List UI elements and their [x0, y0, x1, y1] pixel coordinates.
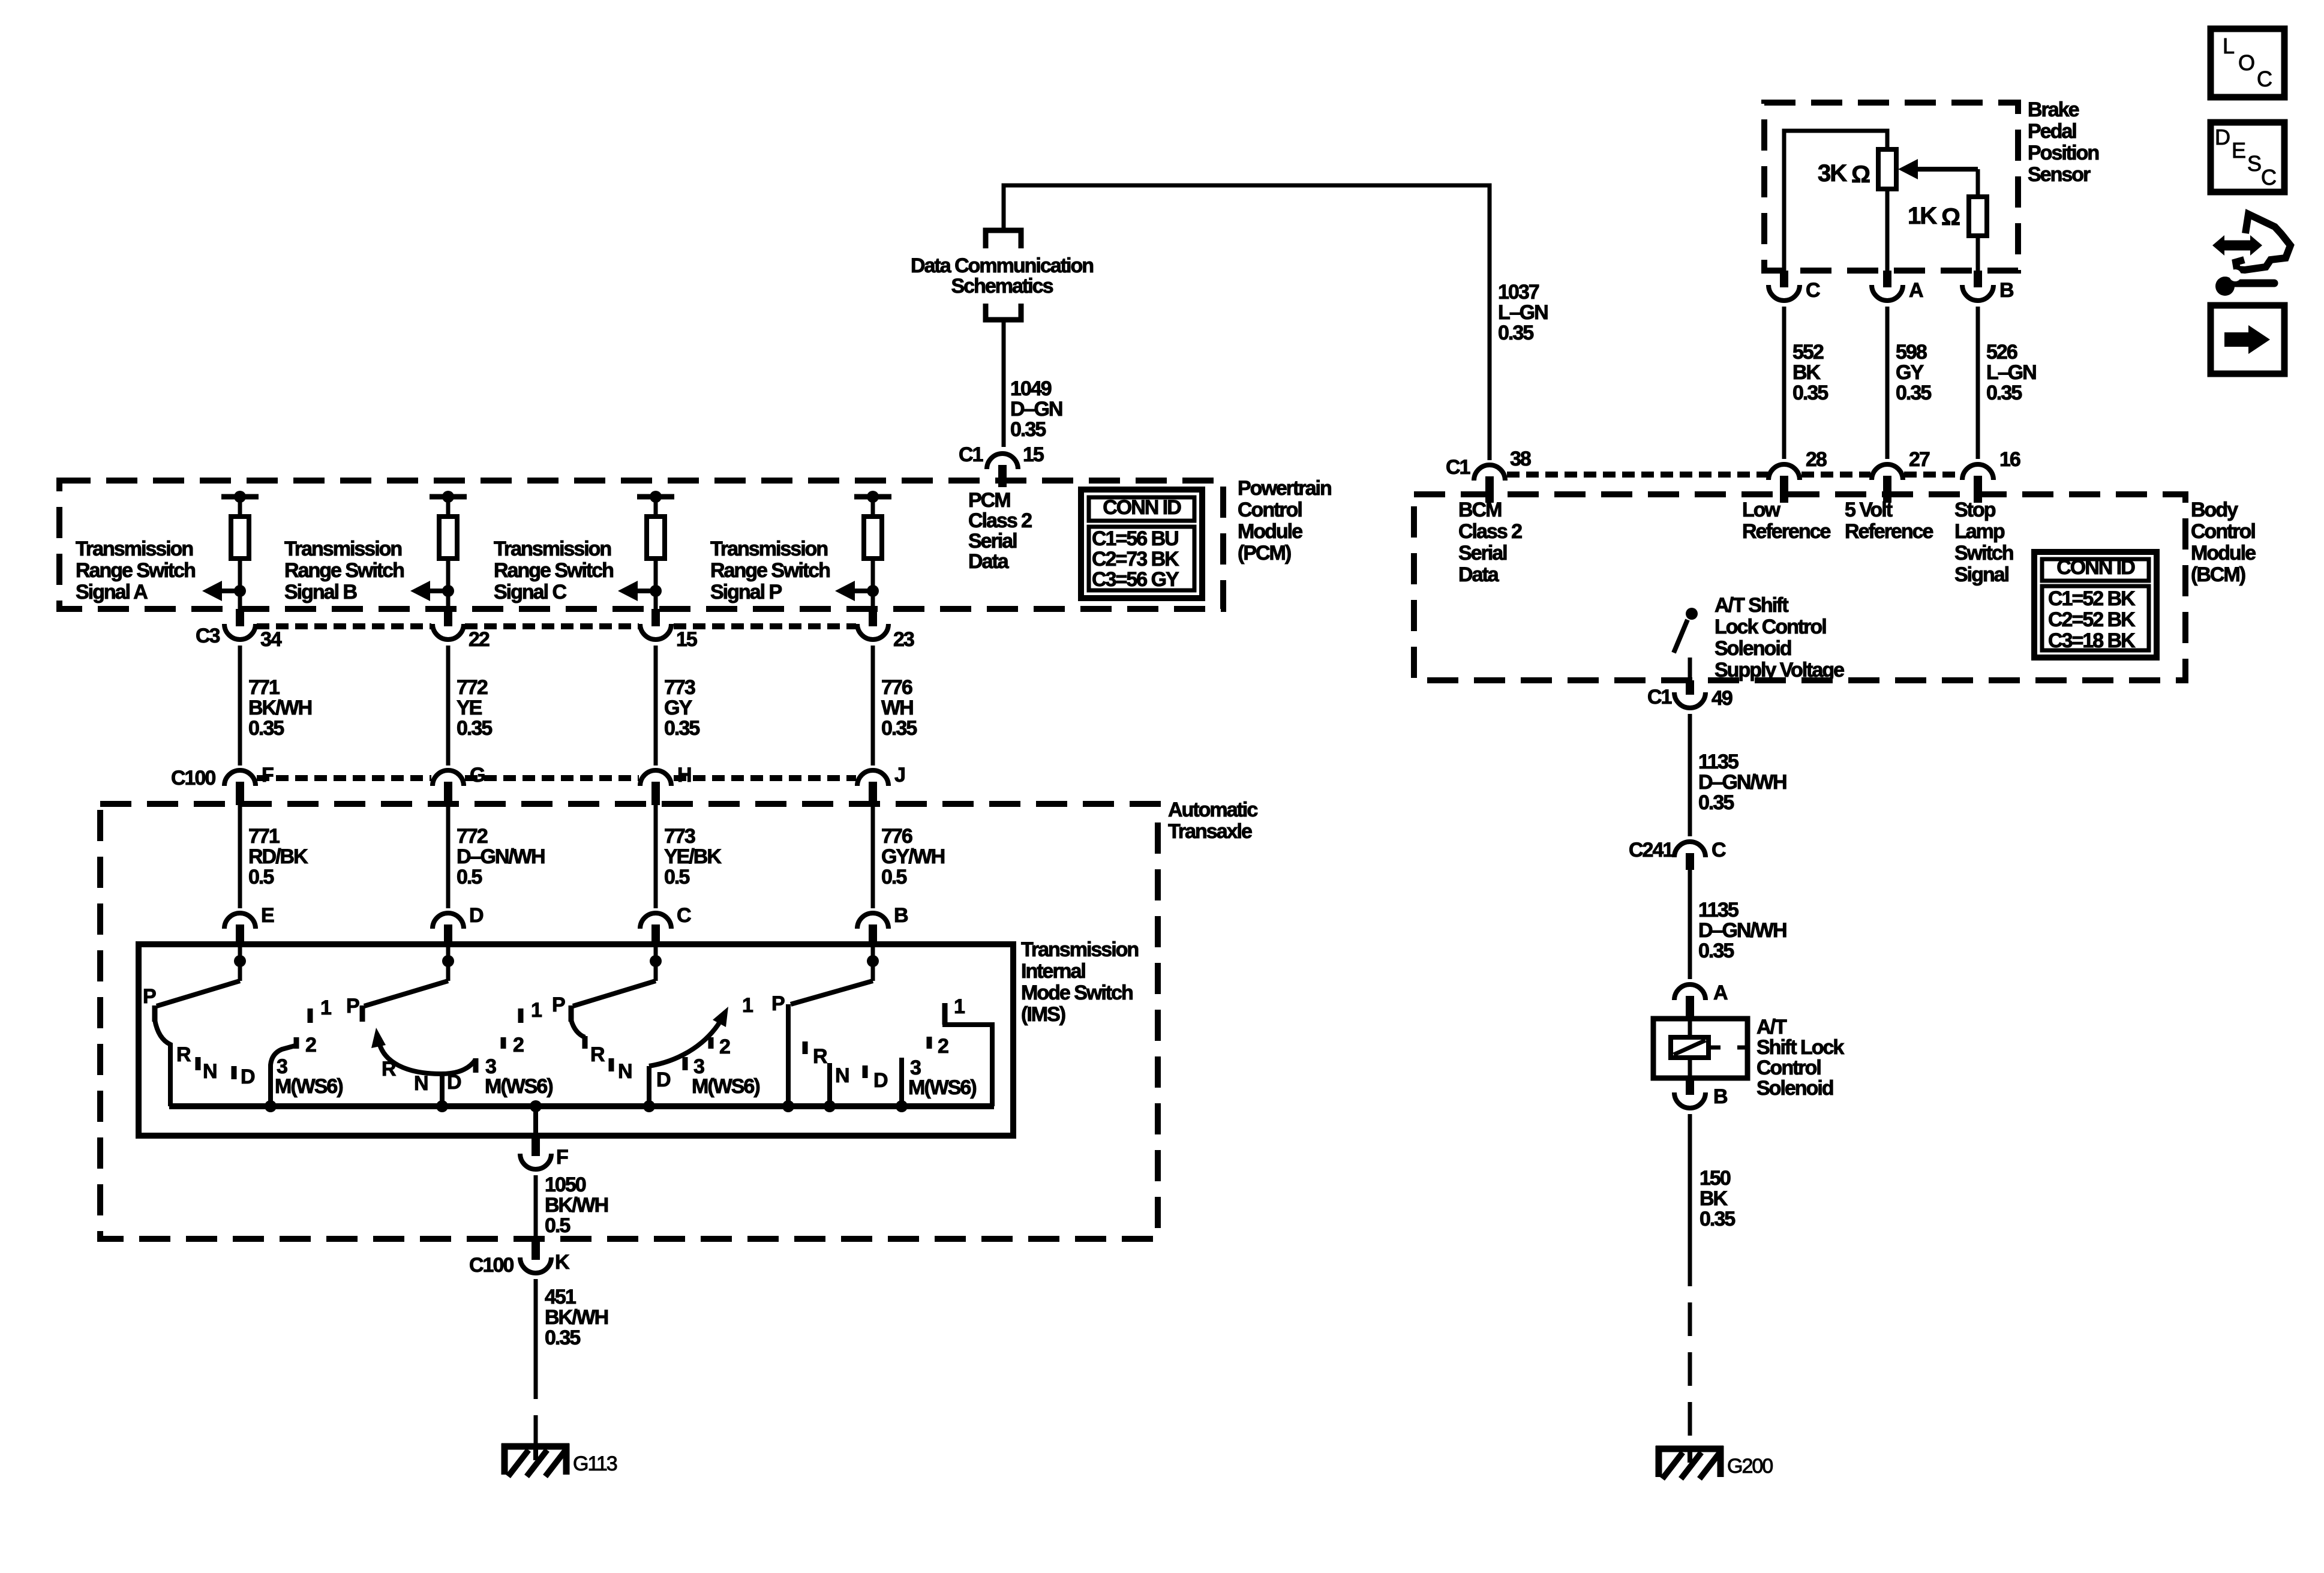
connector IMS terminal E	[224, 913, 256, 929]
svg-text:Transmission: Transmission	[76, 538, 193, 560]
svg-text:1: 1	[531, 999, 542, 1022]
svg-text:C1: C1	[1647, 686, 1672, 709]
wire 776 GY/WH transaxle side	[871, 805, 875, 908]
connector sensor pin A	[1883, 271, 1891, 287]
svg-text:Supply Voltage: Supply Voltage	[1715, 659, 1844, 682]
wire bus to IMS case bottom	[533, 1106, 538, 1136]
svg-text:771: 771	[248, 825, 280, 848]
switch contact dot A/T shift lock supply	[1686, 608, 1698, 620]
svg-text:Signal B: Signal B	[284, 581, 357, 604]
svg-text:Transmission: Transmission	[284, 538, 401, 560]
svg-text:Signal A: Signal A	[76, 581, 148, 604]
svg-text:Mode Switch: Mode Switch	[1021, 981, 1133, 1004]
svg-text:(PCM): (PCM)	[1238, 542, 1291, 565]
svg-text:B: B	[894, 904, 908, 927]
svg-text:A/T Shift: A/T Shift	[1715, 594, 1788, 617]
A/T Shift Lock Control Solenoid box	[1653, 1019, 1747, 1078]
connector sensor terminal A	[1872, 285, 1903, 301]
pullup resistor signal A	[231, 517, 249, 559]
svg-text:BK: BK	[1792, 361, 1821, 384]
svg-text:J: J	[894, 764, 905, 786]
svg-text:Transmission: Transmission	[1021, 938, 1138, 961]
svg-text:Solenoid: Solenoid	[1756, 1077, 1833, 1100]
svg-text:0.5: 0.5	[545, 1214, 570, 1237]
svg-text:PCM: PCM	[968, 489, 1010, 512]
svg-text:49: 49	[1712, 687, 1733, 710]
connector C1 terminal 15 (PCM)	[987, 454, 1018, 469]
icon wrench and replace arrows	[2212, 214, 2290, 296]
pullup resistor signal B	[439, 517, 457, 559]
svg-text:GY: GY	[1896, 361, 1924, 384]
svg-text:L–GN: L–GN	[1498, 301, 1548, 324]
svg-text:Control: Control	[1238, 499, 1302, 521]
wire 1050 BK/WH	[534, 1175, 538, 1239]
svg-text:0.5: 0.5	[457, 866, 482, 888]
svg-text:C: C	[2261, 165, 2276, 190]
connector C1 dashed line seg 1 (BCM)	[1507, 472, 1768, 478]
wire signal A resistor to C3 pin	[238, 559, 242, 610]
contact D tick switch 4	[863, 1065, 868, 1078]
junction dot signal P arrow tap	[867, 585, 879, 597]
svg-text:1: 1	[954, 995, 965, 1018]
svg-text:(BCM): (BCM)	[2191, 563, 2245, 586]
internal PCM bus stub for signal P	[854, 494, 891, 500]
svg-text:YE: YE	[457, 697, 482, 719]
Powertrain Control Module (PCM) dashed box	[59, 481, 1223, 609]
svg-text:2: 2	[305, 1034, 316, 1056]
svg-text:Low: Low	[1742, 499, 1781, 521]
junction dot signal P top	[867, 491, 879, 503]
svg-text:Module: Module	[1238, 520, 1302, 543]
IMS switch 2 arc R-to-3	[379, 1043, 476, 1074]
wire 526 L–GN 0.35	[1976, 307, 1980, 459]
svg-text:L–GN: L–GN	[1986, 361, 2036, 384]
svg-text:Shift Lock: Shift Lock	[1756, 1036, 1844, 1059]
IMS switch 3 arc D-to-1	[649, 1017, 722, 1066]
svg-text:0.35: 0.35	[248, 717, 284, 740]
svg-text:526: 526	[1986, 341, 2017, 364]
svg-text:C100: C100	[171, 767, 215, 789]
connector C100 terminal H	[640, 770, 671, 786]
IMS switch 4 N riser to bus	[827, 1063, 832, 1106]
connector IMS terminal C	[640, 913, 671, 929]
svg-text:P: P	[771, 992, 785, 1015]
svg-text:Switch: Switch	[1954, 542, 2013, 565]
IMS switch 1 M-contact riser to position 2	[271, 1046, 295, 1106]
svg-text:Signal P: Signal P	[710, 581, 782, 604]
wire signal P to pullup resistor	[871, 497, 875, 517]
connector solenoid pin B	[1686, 1078, 1694, 1095]
connector C1 dashed line seg 3 (BCM)	[1904, 472, 1959, 478]
svg-text:0.35: 0.35	[1896, 382, 1931, 404]
IMS switch 2 wiper	[364, 981, 448, 1006]
svg-text:Transmission: Transmission	[494, 538, 611, 560]
junction dot signal B arrow tap	[442, 585, 454, 597]
wire class-2 serial data (PCM C1-15 to BCM C1-38 via Data Communication Schematics)	[1004, 185, 1490, 460]
svg-text:0.5: 0.5	[248, 866, 274, 888]
svg-text:38: 38	[1510, 448, 1531, 470]
svg-text:771: 771	[248, 676, 280, 699]
svg-text:1050: 1050	[545, 1173, 586, 1196]
junction dot IMS input D	[442, 955, 454, 967]
arrow Transmission Range Switch Signal B	[410, 581, 430, 601]
svg-text:Class 2: Class 2	[1458, 520, 1522, 543]
svg-text:D–GN/WH: D–GN/WH	[1698, 919, 1786, 942]
IMS switch 3 wiper	[573, 981, 656, 1006]
svg-text:D: D	[873, 1069, 888, 1092]
PCM CONN ID rows cell	[1089, 527, 1194, 590]
svg-text:0.35: 0.35	[1010, 418, 1046, 441]
connector C1 pin 49	[1686, 680, 1694, 695]
solenoid coil symbol	[1671, 1037, 1709, 1058]
arrow Transmission Range Switch Signal C	[618, 581, 638, 601]
svg-text:776: 776	[881, 825, 912, 848]
svg-text:0.35: 0.35	[1700, 1208, 1735, 1230]
connector C1 terminal 16 (BCM)	[1962, 464, 1993, 480]
junction dot IMS input B	[867, 955, 879, 967]
svg-text:C: C	[1806, 279, 1820, 302]
off-page reference bottom bracket	[986, 304, 1021, 320]
ground G113	[502, 1443, 617, 1476]
wire 598 GY 0.35	[1885, 307, 1890, 459]
svg-text:P: P	[552, 993, 565, 1016]
svg-text:Schematics: Schematics	[951, 275, 1053, 298]
svg-text:Brake: Brake	[2028, 98, 2079, 121]
contact 3 tick switch 3	[683, 1057, 688, 1070]
svg-text:Ω: Ω	[1851, 161, 1870, 188]
wire sensor low reference internal	[1784, 131, 1887, 271]
contact 3 tick switch 2	[473, 1058, 479, 1073]
IMS switch 3 D riser to bus	[647, 1066, 651, 1106]
svg-text:YE/BK: YE/BK	[664, 845, 722, 868]
wire signal B to pullup resistor	[446, 497, 451, 517]
connector sensor terminal C	[1768, 285, 1800, 301]
svg-text:773: 773	[664, 676, 695, 699]
connector terminal F	[520, 1154, 551, 1169]
svg-text:N: N	[618, 1060, 632, 1083]
wire 1049 D-GN 0.35 to PCM	[1002, 322, 1006, 447]
off-page reference top bracket (Data Communication Schematics)	[986, 230, 1021, 248]
contact 2 tick switch 2	[501, 1037, 506, 1049]
junction dot bus switch 1	[265, 1100, 277, 1112]
connector C3 terminal 23	[857, 624, 888, 640]
svg-text:D–GN: D–GN	[1010, 398, 1062, 421]
connector C100 terminal J	[857, 770, 888, 786]
wire 150 dashed continuation to G200	[1688, 1253, 1692, 1446]
svg-text:Powertrain: Powertrain	[1238, 477, 1331, 500]
wire 1135 D-GN/WH upper	[1688, 714, 1692, 836]
wire into IMS switch B	[871, 947, 875, 981]
svg-text:BCM: BCM	[1458, 499, 1502, 521]
junction dot signal C top	[650, 491, 662, 503]
wire switch to BCM edge	[1688, 658, 1692, 680]
svg-text:150: 150	[1700, 1167, 1731, 1190]
connector C100 pin K	[532, 1239, 540, 1260]
wire into IMS switch D	[446, 947, 451, 981]
junction dot bus switch 4 N	[824, 1100, 836, 1112]
wire 773 YE/BK transaxle side	[654, 805, 658, 908]
wire 1135 D-GN/WH lower	[1688, 870, 1692, 979]
svg-text:C: C	[677, 904, 691, 927]
potentiometer 3K ohm	[1878, 149, 1896, 189]
connector C100 terminal G	[433, 770, 464, 786]
svg-text:M(WS6): M(WS6)	[908, 1076, 976, 1099]
connector C100 dashed line seg 2	[465, 775, 639, 781]
connector sensor terminal B	[1962, 285, 1993, 301]
svg-text:E: E	[261, 904, 274, 927]
junction dot signal A arrow tap	[234, 585, 246, 597]
svg-text:Automatic: Automatic	[1168, 798, 1257, 821]
svg-text:N: N	[835, 1064, 849, 1087]
wire 773 GY harness	[654, 646, 658, 766]
svg-text:N: N	[414, 1072, 428, 1095]
svg-text:C: C	[1712, 839, 1726, 861]
svg-text:L: L	[2223, 34, 2234, 58]
svg-text:0.35: 0.35	[881, 717, 917, 740]
svg-text:Pedal: Pedal	[2028, 120, 2076, 143]
wire 451 dashed continuation to G113	[534, 1365, 538, 1443]
contact 2 tick switch 1	[294, 1037, 299, 1049]
icon DESC box	[2211, 122, 2284, 192]
PCM CONN ID title cell	[1089, 497, 1194, 521]
svg-text:15: 15	[1023, 443, 1044, 466]
svg-text:D: D	[2215, 125, 2230, 149]
contact R tick switch 4	[803, 1041, 808, 1054]
svg-text:C241: C241	[1629, 839, 1673, 861]
svg-text:C100: C100	[469, 1254, 514, 1277]
svg-text:Solenoid: Solenoid	[1715, 637, 1791, 660]
arrow Transmission Range Switch Signal P	[835, 581, 855, 601]
svg-text:(IMS): (IMS)	[1021, 1003, 1065, 1026]
svg-text:16: 16	[1999, 448, 2020, 471]
svg-text:Lamp: Lamp	[1954, 520, 2005, 543]
svg-text:15: 15	[676, 628, 697, 651]
svg-text:Transmission: Transmission	[710, 538, 827, 560]
svg-text:0.5: 0.5	[664, 866, 689, 888]
svg-text:C3=56 GY: C3=56 GY	[1092, 568, 1179, 591]
wire 771 RD/BK transaxle side	[238, 805, 242, 908]
resistor 1K ohm	[1969, 197, 1987, 236]
svg-text:552: 552	[1792, 341, 1824, 364]
svg-text:Range Switch: Range Switch	[76, 559, 195, 582]
svg-text:Serial: Serial	[968, 530, 1017, 553]
junction dot bus output F	[530, 1100, 542, 1112]
svg-text:776: 776	[881, 676, 912, 699]
internal PCM bus stub for signal A	[221, 494, 259, 500]
IMS switch 4 contact 1 elbow to bus	[945, 1004, 992, 1106]
IMS switch 4 3-contact riser to bus	[899, 1058, 904, 1106]
wire 772 D–GN/WH transaxle side	[446, 805, 451, 908]
connector sensor pin C	[1780, 271, 1788, 287]
wire 552 BK 0.35	[1782, 307, 1786, 459]
wire 772 YE harness	[446, 646, 451, 766]
svg-text:C1: C1	[1446, 456, 1470, 479]
IMS switch 3 P-to-R curve	[571, 1020, 585, 1037]
connector solenoid terminal A	[1674, 984, 1706, 1000]
junction dot signal B top	[442, 491, 454, 503]
svg-text:0.35: 0.35	[664, 717, 699, 740]
connector C3 pin (terminal 34)	[236, 609, 244, 626]
contact 2 tick switch 3	[708, 1037, 714, 1049]
svg-text:0.5: 0.5	[881, 866, 906, 888]
svg-text:1037: 1037	[1498, 281, 1539, 304]
svg-text:0.35: 0.35	[1792, 382, 1828, 404]
svg-text:Body: Body	[2191, 499, 2238, 521]
svg-text:28: 28	[1806, 448, 1827, 471]
svg-text:BK/WH: BK/WH	[545, 1194, 608, 1217]
junction dot IMS input E	[234, 955, 246, 967]
svg-text:BK/WH: BK/WH	[248, 697, 312, 719]
junction dot bus switch 4 P	[782, 1100, 794, 1112]
svg-text:RD/BK: RD/BK	[248, 845, 308, 868]
ground G200	[1656, 1446, 1773, 1479]
svg-text:R: R	[813, 1045, 827, 1068]
IMS switch 2 arc to bus riser	[440, 1076, 445, 1106]
BCM CONN ID rows cell	[2042, 586, 2149, 650]
svg-text:B: B	[1999, 279, 2014, 302]
svg-text:G200: G200	[1727, 1455, 1773, 1478]
connector C241 terminal C	[1674, 842, 1706, 857]
wire wiper to 1K resistor	[1976, 169, 1980, 197]
svg-text:R: R	[382, 1058, 396, 1080]
IMS switch 1 P-to-bus curve	[155, 1020, 170, 1106]
wire into IMS switch E	[238, 947, 242, 981]
svg-text:Lock Control: Lock Control	[1715, 616, 1826, 638]
pullup resistor signal P	[864, 517, 882, 559]
svg-text:O: O	[2238, 50, 2254, 75]
connector IMS terminal B	[857, 913, 888, 929]
svg-text:C: C	[2257, 67, 2272, 91]
svg-text:C1=56 BU: C1=56 BU	[1092, 527, 1178, 550]
wire signal C to pullup resistor	[654, 497, 658, 517]
svg-text:34: 34	[260, 628, 282, 651]
connector pin F at IMS case	[532, 1136, 540, 1156]
svg-text:0.35: 0.35	[1698, 791, 1734, 814]
BCM CONN ID table box	[2034, 552, 2157, 658]
svg-text:GY/WH: GY/WH	[881, 845, 945, 868]
connector C1 terminal 49	[1674, 692, 1706, 708]
wire 150 BK	[1688, 1114, 1692, 1253]
svg-text:C1=52 BK: C1=52 BK	[2048, 587, 2136, 610]
svg-text:WH: WH	[881, 697, 913, 719]
connector C100 terminal F	[224, 770, 256, 786]
svg-text:CONN ID: CONN ID	[2056, 556, 2135, 579]
icon arrow box	[2211, 305, 2284, 374]
internal PCM bus stub for signal C	[637, 494, 674, 500]
IMS switch 1 wiper	[157, 981, 240, 1006]
svg-text:E: E	[2232, 138, 2245, 163]
svg-text:B: B	[1713, 1085, 1728, 1108]
svg-text:Internal: Internal	[1021, 960, 1085, 983]
svg-text:BK/WH: BK/WH	[545, 1306, 608, 1329]
svg-text:M(WS6): M(WS6)	[692, 1075, 759, 1098]
contact N tick switch 3	[609, 1058, 614, 1071]
connector solenoid terminal B	[1674, 1092, 1706, 1108]
svg-text:Module: Module	[2191, 542, 2256, 565]
BCM CONN ID title cell	[2042, 559, 2149, 581]
connector C3 terminal 15	[640, 624, 671, 640]
svg-text:23: 23	[893, 628, 914, 651]
wire 3K bottom to terminal A	[1885, 189, 1890, 271]
svg-text:F: F	[556, 1146, 568, 1169]
svg-text:Transaxle: Transaxle	[1168, 820, 1252, 843]
svg-text:22: 22	[469, 628, 490, 651]
IMS switch 4 wiper	[791, 981, 873, 1004]
svg-text:0.35: 0.35	[457, 717, 492, 740]
svg-text:R: R	[590, 1043, 605, 1066]
connector C3 dashed line seg 3	[674, 623, 856, 629]
svg-text:0.35: 0.35	[1986, 382, 2022, 404]
svg-text:A: A	[1713, 981, 1728, 1004]
contact 1 tick switch 1	[308, 1008, 313, 1023]
connector C1 terminal 27 (BCM)	[1872, 464, 1903, 480]
wire 771 BK/WH harness	[238, 646, 242, 766]
svg-text:Range Switch: Range Switch	[494, 559, 613, 582]
svg-text:Serial: Serial	[1458, 542, 1507, 565]
connector C3 terminal 34	[224, 624, 256, 640]
contact 1 tick switch 4	[942, 1003, 948, 1025]
svg-text:Control: Control	[1756, 1056, 1821, 1079]
svg-text:1135: 1135	[1698, 899, 1739, 921]
contact 2 tick switch 4	[927, 1037, 932, 1049]
svg-text:C3=18 BK: C3=18 BK	[2048, 629, 2136, 652]
svg-text:CONN ID: CONN ID	[1103, 496, 1181, 519]
svg-text:Signal C: Signal C	[494, 581, 566, 604]
connector C3 pin (terminal 22)	[444, 609, 452, 626]
svg-text:2: 2	[719, 1035, 730, 1058]
svg-text:Ω: Ω	[1941, 204, 1960, 230]
connector C3 pin (terminal 15)	[651, 609, 660, 626]
svg-text:3K: 3K	[1818, 160, 1847, 187]
svg-text:0.35: 0.35	[545, 1326, 580, 1349]
wire signal B resistor to C3 pin	[446, 559, 451, 610]
svg-text:P: P	[143, 985, 156, 1008]
svg-text:Reference: Reference	[1742, 520, 1831, 543]
svg-text:1049: 1049	[1010, 377, 1052, 400]
connector C1 terminal 38 (BCM)	[1474, 465, 1505, 481]
svg-text:598: 598	[1896, 341, 1927, 364]
connector sensor pin B	[1974, 271, 1982, 287]
junction dot bus switch 3	[643, 1100, 655, 1112]
wire 776 WH harness	[871, 646, 875, 766]
svg-text:D: D	[469, 904, 484, 927]
wire into IMS switch C	[654, 947, 658, 981]
svg-text:R: R	[176, 1043, 191, 1066]
svg-text:Position: Position	[2028, 142, 2098, 164]
svg-text:772: 772	[457, 825, 488, 848]
svg-text:451: 451	[545, 1286, 576, 1308]
svg-text:27: 27	[1909, 448, 1930, 471]
pullup resistor signal C	[647, 517, 665, 559]
Automatic Transaxle dashed box	[100, 804, 1158, 1239]
connector IMS terminal D	[433, 913, 464, 929]
connector C100 dashed line seg 3	[674, 775, 856, 781]
connector C100 terminal K	[520, 1257, 551, 1273]
wire signal A to pullup resistor	[238, 497, 242, 517]
svg-text:Signal: Signal	[1954, 563, 2009, 586]
wire 1K bottom to terminal B	[1976, 236, 1980, 271]
svg-text:Reference: Reference	[1845, 520, 1933, 543]
svg-text:D: D	[656, 1068, 671, 1091]
svg-text:Sensor: Sensor	[2028, 163, 2091, 186]
connector C100 dashed line seg 1	[257, 775, 431, 781]
Transmission Internal Mode Switch (IMS) box	[139, 944, 1013, 1136]
svg-text:BK: BK	[1700, 1187, 1728, 1210]
svg-text:C3: C3	[196, 625, 220, 647]
icon LOC box	[2211, 29, 2284, 97]
junction dot signal C arrow tap	[650, 585, 662, 597]
svg-text:GY: GY	[664, 697, 692, 719]
